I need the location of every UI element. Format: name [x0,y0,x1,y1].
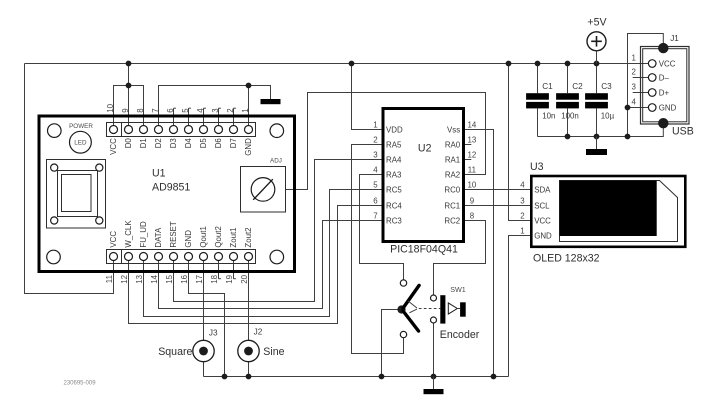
node ground rail / SW1 / ground symbol [431,374,437,380]
svg-text:Zout2: Zout2 [244,227,253,247]
svg-text:5: 5 [373,181,378,190]
svg-text:6: 6 [166,108,175,113]
node +5V rail / C2 [565,61,571,67]
svg-text:1: 1 [520,227,524,236]
svg-text:10: 10 [468,181,477,190]
J1 shield pin bottom [658,118,668,128]
svg-text:Zout1: Zout1 [229,227,238,247]
no-connect tick pin 18 [219,278,221,280]
U1 top pin circle 7 [155,126,163,134]
ground bar (top, near U1) [261,99,281,104]
svg-text:11: 11 [468,166,476,175]
svg-text:SDA: SDA [534,185,551,194]
module U1 AD9851 outline [39,116,295,272]
svg-text:3: 3 [632,82,637,91]
svg-text:J3: J3 [209,329,218,338]
svg-text:RA1: RA1 [445,155,460,164]
wire U2 RA3 to encoder contact A [360,175,404,284]
wire C1 top lead [537,64,539,94]
wire stub U2 RA0 [464,144,471,146]
encoder wiper arm lower [403,311,418,331]
no-connect tick pin 6 [174,107,176,109]
svg-text:1: 1 [632,53,636,62]
node GND pin1 junction [246,83,252,89]
node +5V rail junction [126,61,132,67]
wire C1 bottom lead [537,108,539,136]
svg-text:16: 16 [180,274,189,283]
OLED panel outline [560,181,678,242]
svg-text:D2: D2 [154,138,163,148]
svg-text:+5V: +5V [587,17,607,29]
svg-text:RA3: RA3 [386,170,402,179]
J1 pin 2 circle [648,74,656,82]
svg-text:2: 2 [520,212,524,221]
+5V supply symbol [587,32,606,51]
wire U2 RC2 to SW1 [434,221,486,299]
svg-text:C1: C1 [542,82,553,91]
encoder contact A [400,280,406,286]
svg-text:4: 4 [520,181,525,190]
wire +5V to U3 VCC [509,64,532,221]
svg-text:4: 4 [373,166,378,175]
node +5V rail / U3 VCC riser [506,61,512,67]
wire stub U2 RA1 [464,159,471,161]
U1 bottom pin circle 17 [200,253,208,261]
J1 pin 4 circle [648,104,656,112]
OLED display area [560,181,657,237]
svg-text:RA2: RA2 [445,170,460,179]
svg-text:12: 12 [468,151,477,160]
switch SW1 contact lower [431,317,437,323]
svg-text:19: 19 [225,274,234,283]
J1 pin 3 circle [648,89,656,97]
wire GND pin1 riser [248,86,250,130]
U1 bottom pin circle 15 [170,253,178,261]
wire stub U1 pin 3 D6 [218,108,220,129]
svg-text:PIC18F04Q41: PIC18F04Q41 [390,244,458,256]
ground bar (bottom) [424,389,444,394]
no-connect tick pin 2 [234,107,236,109]
svg-text:4: 4 [196,108,205,113]
wire +5V to bracket riser [128,64,130,86]
wire U1 pin14 DATA to U2 RC3 [159,221,382,309]
svg-text:C3: C3 [601,82,612,91]
svg-text:D3: D3 [169,138,178,149]
connector J2 (Sine out) [238,340,259,361]
wire +5V rail [25,63,653,65]
svg-text:9: 9 [470,197,475,206]
svg-text:D4: D4 [184,138,193,149]
svg-text:15: 15 [165,274,174,283]
svg-text:D+: D+ [659,88,670,97]
U1 bottom pin circle 19 [230,253,238,261]
U1 top pin circle 9 [125,126,133,134]
no-connect tick pin 19 [234,278,236,280]
svg-text:VCC: VCC [659,59,676,68]
svg-text:20: 20 [240,274,249,283]
wire C2 bottom lead [567,108,569,136]
oscillator footprint on U1 [47,160,106,229]
svg-text:D–: D– [659,73,670,82]
svg-text:OLED 128x32: OLED 128x32 [533,252,600,264]
svg-text:7: 7 [151,108,160,112]
wire U1 pin15 RESET to U2 RA4 [174,160,382,302]
svg-text:D0: D0 [124,138,133,149]
wire C3 top lead [596,64,598,94]
svg-text:J1: J1 [670,34,679,43]
svg-text:100n: 100n [561,111,579,120]
U1 top pin circle 4 [200,126,208,134]
U1 bottom pin circle 14 [155,253,163,261]
capacitor C3 [585,93,608,100]
wire ground symbol stem (near C3) [596,137,598,150]
wire stub U1 pin19 Zout1 [233,257,235,279]
wire capacitor ground bus [538,123,664,136]
wire J2 sleeve to ground [248,362,250,377]
svg-text:Encoder: Encoder [440,329,480,341]
node bracket junction [126,83,132,89]
wire U1 pin16 GND to ground rail [189,257,225,377]
U1 top pin circle 3 [215,126,223,134]
U1 top pin circle 10 [110,126,118,134]
mounting hole U1 bottom-right [270,250,284,264]
wire J3 sleeve to ground [203,362,205,377]
U1 bottom pin circle 12 [125,253,133,261]
encoder contact B [400,331,406,337]
svg-text:RA5: RA5 [386,140,402,149]
svg-text:USB: USB [672,126,694,138]
module U3 OLED outline [531,176,685,247]
node J1 GND / shield riser [625,105,631,111]
U1 top pin circle 5 [185,126,193,134]
svg-text:8: 8 [136,108,145,113]
svg-text:12: 12 [120,275,129,284]
node ground bus / C2 [565,134,571,140]
svg-text:VCC: VCC [109,231,118,248]
wire U1 pin17 Qout1 to J3 [203,257,205,352]
wire U2 RA5 to encoder contact B [352,145,404,354]
svg-text:RA4: RA4 [386,155,402,164]
wire C3 bottom lead [596,108,598,136]
svg-text:18: 18 [210,274,219,283]
svg-text:C2: C2 [572,82,583,91]
svg-text:W_CLK: W_CLK [124,220,133,248]
svg-text:RA0: RA0 [445,140,461,149]
mounting hole U1 top-right [270,124,284,138]
J1 pin 1 circle [648,60,656,68]
svg-text:VDD: VDD [386,125,403,134]
svg-text:VCC: VCC [109,138,118,155]
no-connect tick pin 4 [204,107,206,109]
node ground bus / C3 + ground symbol [594,134,600,140]
svg-text:3: 3 [520,197,525,206]
svg-text:4: 4 [632,97,637,106]
U1 bottom pin circle 13 [140,253,148,261]
svg-text:SCL: SCL [534,201,550,210]
svg-text:14: 14 [468,121,477,130]
wire U3 GND to ground rail [509,236,532,377]
connector J3 (Square out) [193,340,214,361]
svg-text:SW1: SW1 [450,285,466,294]
svg-text:11: 11 [105,275,114,283]
svg-text:D7: D7 [229,138,238,148]
wire +5V to U2 VDD [352,64,382,130]
wire ground rail (bottom) [204,376,509,378]
svg-text:FU_UD: FU_UD [139,221,148,248]
wire SW1 lower contact to ground [433,320,435,377]
svg-text:RC2: RC2 [444,216,460,225]
svg-text:Square: Square [158,346,192,358]
wire D2-GND tie bracket (U1 top) [159,86,271,130]
U1 bottom pin circle 20 [245,253,253,261]
encoder wiper arm upper [403,285,419,308]
node ground rail / U1 pin16 [222,374,228,380]
svg-text:Qout2: Qout2 [214,226,223,248]
wire ground symbol stem (bottom) [433,377,435,390]
ground bar (near C3) [586,149,607,155]
wire encoder common to ground rail [382,310,402,377]
wire stub U1 pin 5 D4 [188,108,190,129]
svg-text:3: 3 [211,108,220,113]
wire stub U1 pin 6 D3 [173,108,175,129]
U1 top pin header [107,123,256,137]
svg-text:13: 13 [135,274,144,283]
svg-text:6: 6 [373,197,378,206]
svg-text:D1: D1 [139,138,148,148]
svg-text:RC1: RC1 [444,201,460,210]
mounting hole U1 bottom-left [47,250,61,264]
switch SW1 plate [440,295,445,323]
svg-text:14: 14 [150,274,159,283]
wire U1 pin12 W_CLK to U2 RC4 [129,206,382,324]
svg-text:POWER: POWER [69,123,93,130]
wire +5V branch to U1 pin 11 VCC [25,64,114,294]
wire stub U1 pin 4 D5 [203,108,205,129]
node +5V rail / C3 [594,61,600,67]
svg-text:RESET: RESET [169,221,178,247]
wire U2 Vss to ground rail [464,130,494,377]
wire D0 riser [128,86,130,130]
svg-text:RC5: RC5 [386,185,402,194]
U1 bottom pin circle 18 [215,253,223,261]
switch SW1 actuator arrow [448,303,457,314]
power LED [70,131,92,153]
svg-text:2: 2 [226,108,235,112]
svg-text:DATA: DATA [154,227,163,248]
wire stub J1 pin2 D- [633,77,653,79]
U1 top pin circle 2 [230,126,238,134]
wire stub U1 pin18 Qout2 [218,257,220,279]
svg-text:D6: D6 [214,138,223,149]
node ground rail / encoder common [379,374,385,380]
svg-text:2: 2 [373,136,377,145]
svg-text:8: 8 [470,212,475,221]
svg-text:GND: GND [244,138,253,156]
svg-text:LED: LED [74,140,87,147]
svg-text:RC3: RC3 [386,216,402,225]
U1 bottom pin circle 11 [110,253,118,261]
svg-text:Qout1: Qout1 [199,226,208,248]
wire U2 RC1 to U3 SCL [464,205,532,207]
svg-text:U3: U3 [530,161,544,173]
node +5V rail / U2 VDD [349,61,355,67]
svg-text:5: 5 [181,108,190,113]
U1 top pin circle 1 [245,126,253,134]
wire U1 pin13 FU_UD to U2 RC5 [144,190,382,317]
encoder common node [397,305,405,313]
svg-text:ADJ: ADJ [270,158,282,165]
svg-text:Sine: Sine [263,346,284,358]
connector J1 USB outline [641,47,690,125]
svg-text:9: 9 [121,108,130,113]
svg-text:7: 7 [373,212,377,221]
svg-text:D5: D5 [199,138,208,149]
svg-text:10µ: 10µ [601,111,615,120]
svg-text:230695-009: 230695-009 [64,381,97,387]
svg-text:10n: 10n [542,111,555,120]
capacitor C2 [556,93,579,100]
wire stub U1 pin 2 D7 [233,108,235,129]
U1 bottom pin circle 16 [185,253,193,261]
encoder detent chevron [408,301,417,313]
svg-text:RC4: RC4 [386,201,402,210]
svg-text:GND: GND [659,103,677,112]
svg-text:AD9851: AD9851 [152,181,190,193]
U1 top pin circle 8 [140,126,148,134]
IC U2 PIC18F04Q41 outline [383,109,464,242]
svg-text:GND: GND [184,230,193,248]
svg-text:1: 1 [373,121,377,130]
wire J1 shield loop [628,34,664,137]
svg-text:3: 3 [373,151,378,160]
svg-text:VCC: VCC [534,216,551,225]
no-connect tick pin 3 [219,107,221,109]
svg-text:RC0: RC0 [444,185,460,194]
wire J1 pin4 GND stub [628,107,653,109]
svg-text:17: 17 [195,275,204,284]
no-connect tick pin 5 [189,107,191,109]
capacitor C1 [526,93,549,100]
svg-text:GND: GND [534,231,552,240]
svg-text:U1: U1 [152,168,166,180]
svg-text:J2: J2 [254,328,263,337]
svg-text:1: 1 [241,108,250,112]
switch SW1 contact upper [431,295,437,301]
wire U2 RC0 to U3 SDA [464,189,532,191]
wire ADJ wiper to U2 RA2 [286,93,486,190]
mounting hole U1 top-left [48,124,62,138]
U1 bottom pin header [107,250,256,264]
U1 top pin circle 6 [170,126,178,134]
svg-text:10: 10 [106,103,115,112]
switch SW1 button cap [460,302,466,316]
node +5V rail / C1 [535,61,541,67]
trimmer ADJ on U1 [241,167,286,213]
node ground rail / J2 sleeve [246,374,252,380]
svg-text:13: 13 [468,136,477,145]
J1 shield pin top [658,43,668,53]
wire stub J1 pin3 D+ [633,92,653,94]
svg-text:2: 2 [632,67,636,76]
wire C2 top lead [567,64,569,94]
svg-text:Vss: Vss [447,125,460,134]
wire VCC-D0-D1 tie bracket (U1 top) [114,86,144,130]
wire U1 pin20 Zout2 to J2 [248,257,250,352]
node ground rail / Vss riser [491,374,497,380]
svg-text:U2: U2 [418,142,432,154]
encoder-switch coupling (dashed) [419,308,441,310]
node shield riser / ground bus [625,134,631,140]
